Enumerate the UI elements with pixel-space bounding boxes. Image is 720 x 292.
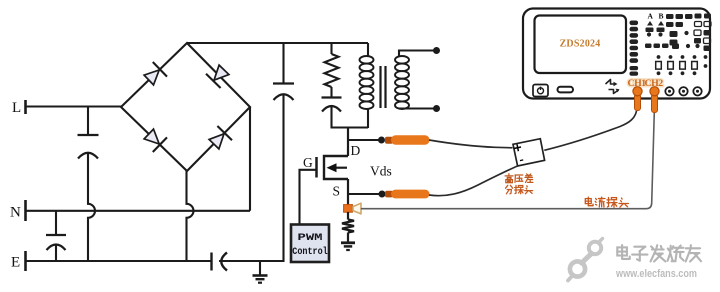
wire secondary top lead xyxy=(399,51,436,58)
capacitor C5 (snubber) xyxy=(330,87,332,98)
wire source probe to diff probe input xyxy=(429,166,518,196)
svg-text:D: D xyxy=(351,143,361,158)
label 分探头 (probe) xyxy=(506,185,508,188)
svg-text:ZDS2024: ZDS2024 xyxy=(560,39,601,50)
bridge rectifier diamond xyxy=(121,43,250,171)
capacitor C2 (L line filter) xyxy=(87,107,89,136)
BNC CH1 with orange plug xyxy=(635,94,641,111)
transistor Q1 (MOSFET) body xyxy=(324,156,348,179)
ground (E line) xyxy=(259,261,261,275)
Q1 arrow xyxy=(332,167,347,169)
scope power button xyxy=(533,85,548,97)
op-amp U1 PWM controller box xyxy=(291,225,329,263)
svg-text:G: G xyxy=(303,155,313,170)
BNC CH2 with orange plug xyxy=(652,94,658,113)
scope trigger glyph xyxy=(606,80,617,85)
wire bridge right vertex down to N xyxy=(249,107,251,211)
svg-text:E: E xyxy=(11,255,20,271)
svg-text:B: B xyxy=(659,12,664,21)
wire diff probe to CH1 xyxy=(544,111,636,150)
resistor R1 (snubber) xyxy=(330,43,332,54)
wire drain probe tap xyxy=(348,139,381,141)
Q1 gate bar xyxy=(315,157,318,178)
wire C2 down, hop over N xyxy=(88,153,95,262)
scope usb slot xyxy=(558,87,574,93)
probe tip on drain (orange) xyxy=(385,137,393,144)
resistor R2 (current sense) xyxy=(342,220,354,233)
diode D4 (lower-right) xyxy=(209,134,224,149)
capacitor C1 (N-E filter) xyxy=(55,211,57,235)
transformer core xyxy=(379,66,381,108)
BNC connector 4 xyxy=(679,87,687,95)
node secondary bottom terminal xyxy=(433,105,440,112)
watermark logo (elecfans) xyxy=(589,242,601,254)
node drain tap xyxy=(378,137,385,144)
svg-text:Vds: Vds xyxy=(370,164,392,179)
high-voltage differential probe box xyxy=(513,139,545,166)
oscilloscope screen xyxy=(535,16,627,74)
svg-text:Control: Control xyxy=(292,246,328,258)
label 高压差 (HV diff) xyxy=(508,174,510,176)
svg-text:S: S xyxy=(333,184,341,199)
BNC connector 3 xyxy=(665,87,673,95)
transformer T1 secondary winding xyxy=(395,56,409,64)
wire primary bottom to MOSFET drain xyxy=(347,128,349,157)
svg-text:N: N xyxy=(10,205,21,221)
svg-text:PWM: PWM xyxy=(298,232,323,244)
ground (source resistor) xyxy=(341,241,355,244)
wire bridge bottom to E, hop over N xyxy=(187,171,194,261)
wire gate to PWM controller xyxy=(300,170,317,225)
diode D3 (lower-left) xyxy=(144,129,159,144)
current probe clamp (orange) xyxy=(344,205,353,213)
transformer T1 primary winding xyxy=(367,43,369,57)
scope button grid xyxy=(666,14,674,19)
node secondary top terminal xyxy=(433,47,440,54)
scope knob columns xyxy=(657,55,661,59)
oscilloscope body (ZDS2024) xyxy=(523,9,710,99)
watermark 电子发烧友 xyxy=(617,247,627,255)
diode D1 (upper-left, points to + apex) xyxy=(144,70,159,85)
wire source probe tap xyxy=(348,193,382,195)
node source tap xyxy=(379,191,386,198)
wire secondary bottom lead xyxy=(399,107,436,109)
svg-text:L: L xyxy=(12,100,21,116)
probe tip on source (orange) xyxy=(385,191,393,198)
wire MOSFET source down xyxy=(347,179,349,205)
capacitor C4 (E line, at x=213) xyxy=(210,253,212,271)
wire L to bridge left vertex xyxy=(26,105,121,107)
diode D2 (upper-right) xyxy=(214,65,229,80)
capacitor C3 (bulk) xyxy=(282,43,284,84)
svg-text:www.elecfans.com: www.elecfans.com xyxy=(615,268,697,280)
wire drain probe to diff probe input xyxy=(429,140,513,148)
wire current probe cable to CH2 xyxy=(361,112,655,209)
scope softkey column xyxy=(630,21,639,26)
wire bulk cap to E corner xyxy=(219,94,284,261)
BNC connector 5 xyxy=(693,87,701,95)
wire E line left of cap xyxy=(26,260,212,262)
wire source to sense resistor xyxy=(347,212,349,220)
wire snubber bottom bar xyxy=(331,126,369,128)
label 电流探头 (current probe) xyxy=(585,199,591,204)
svg-text:A: A xyxy=(648,12,654,21)
wire N line xyxy=(26,210,250,212)
wire top +rail xyxy=(187,42,368,44)
